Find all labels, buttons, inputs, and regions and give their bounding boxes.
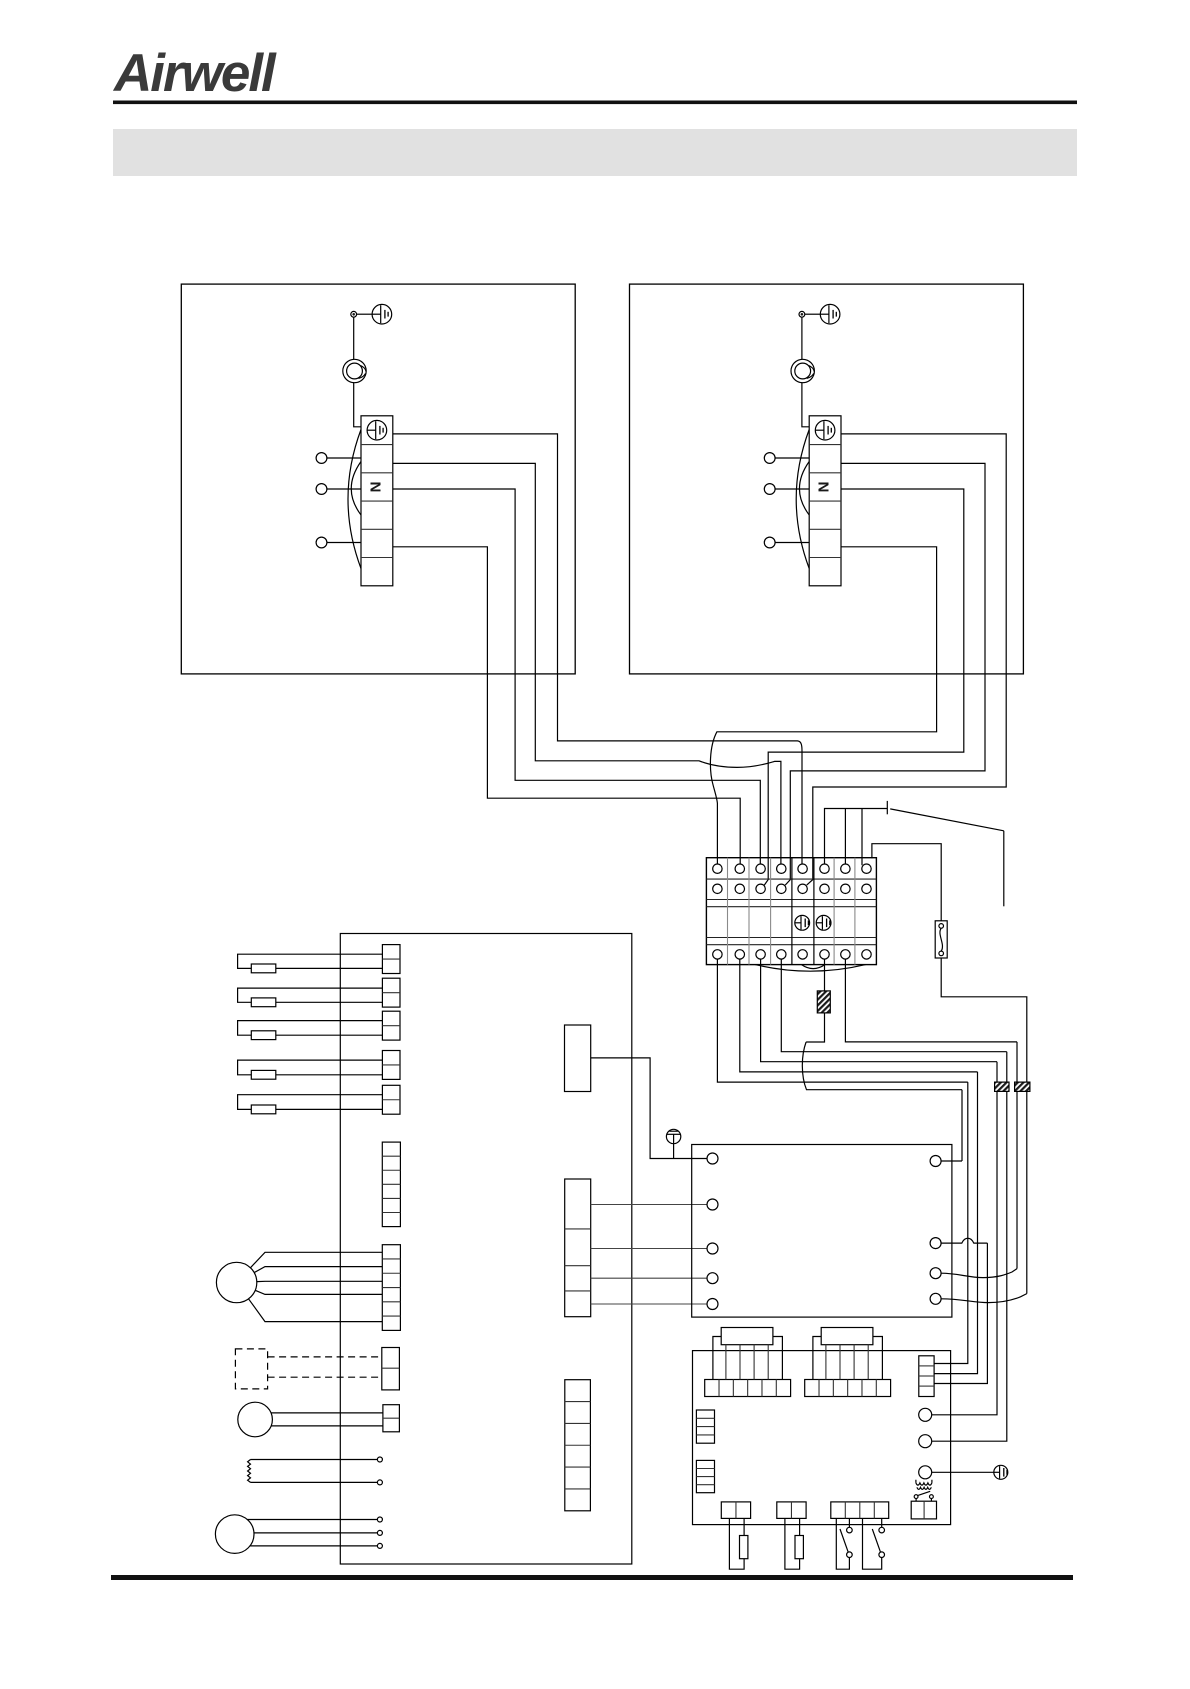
wire — [801, 317, 803, 359]
connector K4 header — [821, 1328, 873, 1345]
pin — [377, 1543, 382, 1548]
terminal block TB bottom row terminals — [713, 950, 722, 959]
fan motor FM1 — [216, 1262, 256, 1302]
wire — [276, 1001, 383, 1003]
relay K2 coil terminal — [919, 1435, 932, 1448]
wire U2 t2 to TB row2 col4 — [785, 463, 985, 885]
connector CN12 4-pin right — [919, 1356, 934, 1397]
control box pin L1 — [707, 1153, 718, 1164]
connector CN1 2-pin — [382, 945, 400, 974]
pin — [377, 1530, 382, 1535]
connector K4 pins — [825, 1345, 827, 1380]
terminal block TB column dividers — [727, 858, 729, 965]
terminal strip U2 — [809, 416, 841, 586]
PCB board outline — [340, 934, 632, 1565]
wire — [591, 1303, 707, 1305]
wire feed cols 6-8 — [825, 809, 888, 866]
earth terminal U1 strip — [367, 420, 387, 440]
control box pin R3 — [930, 1268, 941, 1279]
control box pin R4 — [930, 1293, 941, 1304]
pump motor PM1 — [238, 1402, 273, 1437]
control box pin R2 — [930, 1238, 941, 1249]
transformer T1 switch blade — [917, 1491, 930, 1495]
wire col2 to bottom box cn3 pin2 — [934, 1072, 977, 1374]
switch S2 — [836, 1518, 849, 1569]
wire dashed — [268, 1356, 382, 1358]
wire TB col7 down — [845, 959, 1017, 1042]
wire TB col4 down — [781, 959, 1007, 1052]
fan motor U2 — [791, 359, 814, 382]
wire — [276, 1074, 383, 1076]
wire K5 to earth — [932, 1471, 994, 1473]
wire — [805, 313, 821, 315]
terminal block TB outline — [706, 858, 876, 965]
pin U2 L1 — [764, 453, 775, 464]
wire — [775, 488, 809, 490]
connector CN14 4-pin left — [696, 1460, 714, 1492]
wire TB col8 to fuse F1 — [872, 844, 941, 921]
wire TB col3 down — [761, 959, 997, 1062]
wire U1 t5 to TB col2 — [393, 547, 740, 864]
cable arc U2 outer — [796, 430, 809, 569]
wire — [802, 383, 809, 427]
wire col1 to bottom box cn3 pin1 — [934, 1082, 968, 1363]
relay board outline — [693, 1351, 951, 1525]
wire — [276, 967, 383, 969]
wire — [591, 1204, 707, 1206]
header rule — [113, 101, 1077, 105]
wire — [276, 1108, 383, 1110]
compressor motor CM1 — [215, 1515, 254, 1554]
wire U1 N to TB col3 — [393, 489, 761, 864]
connector CN9 2-pin — [383, 1405, 400, 1432]
wire — [254, 1267, 382, 1273]
wire TB col2 down — [740, 959, 978, 1072]
wire — [591, 1277, 707, 1279]
transformer T1 pins — [914, 1495, 918, 1499]
control box pin L3 — [707, 1243, 718, 1254]
earth terminal TB col6 — [816, 915, 831, 930]
resistor P1R — [729, 1518, 744, 1569]
cable marker M3 — [1015, 1082, 1030, 1091]
control box pin R1 — [930, 1156, 941, 1167]
svg-text:N: N — [816, 482, 833, 493]
wire — [276, 1034, 383, 1036]
cable arc U1 outer — [348, 430, 361, 569]
connector K4 cells — [805, 1380, 891, 1397]
connector K4 outer pins — [813, 1337, 883, 1380]
pin U2 L3 — [764, 537, 775, 548]
connector CN3 2-pin — [382, 1011, 400, 1040]
earth terminal E2 — [994, 1465, 1008, 1479]
terminal block TB top row terminals — [713, 864, 722, 873]
wire — [254, 1532, 377, 1534]
wire col3 to relay K1 — [932, 1062, 997, 1415]
earth symbol E1 — [666, 1129, 680, 1158]
wire U1 t2 to TB col4 — [393, 463, 781, 864]
cable arc U2 inner — [799, 462, 809, 516]
pin U2 L2 — [764, 484, 775, 495]
connector CN4 2-pin — [382, 1051, 400, 1080]
terminal strip U1 — [361, 416, 393, 586]
wire dashed — [268, 1376, 382, 1378]
connector CN5 2-pin — [382, 1085, 400, 1114]
terminal block TB second row terminals — [713, 884, 722, 893]
wire — [257, 1280, 383, 1282]
earth terminal U1 top — [372, 304, 392, 324]
wire — [327, 542, 361, 544]
pin U1 L1 — [316, 453, 327, 464]
optional module dashed — [235, 1349, 267, 1389]
wire — [327, 457, 361, 459]
pin — [377, 1480, 382, 1485]
wire to relay pin R1 — [961, 1090, 963, 1161]
wire switch drop open end — [1003, 831, 1005, 907]
crossover arc col6 wire — [802, 1042, 962, 1090]
relay K1 coil terminal — [919, 1408, 932, 1421]
wire — [249, 1299, 383, 1322]
wire — [357, 313, 373, 315]
earth terminal TB col5 — [795, 915, 810, 930]
wire — [251, 1481, 378, 1483]
wire — [250, 1545, 377, 1547]
connector P2 — [777, 1502, 806, 1519]
wire R1 — [941, 1160, 962, 1162]
connector K3 pins — [725, 1345, 727, 1380]
switch S3 — [863, 1518, 882, 1569]
switch S1 blade — [890, 809, 1004, 831]
power module PS1 — [565, 1025, 591, 1092]
wire relay pin R2 to bottom box cn3 pin3 — [934, 1243, 987, 1383]
indoor unit U2 enclosure — [630, 284, 1024, 674]
wire — [251, 1459, 378, 1461]
indoor unit U1 enclosure — [181, 284, 575, 674]
wire R4 with hops — [941, 1294, 1027, 1303]
wire U2 N to TB row2 col3 — [764, 489, 964, 885]
fan motor U1 — [343, 359, 366, 382]
thermistor TH5 — [238, 1095, 383, 1110]
wire — [272, 1412, 383, 1414]
wire fuse F1 to relay pin R4 vertical — [941, 958, 1027, 1294]
connector K3 cells — [705, 1380, 791, 1397]
title band — [113, 129, 1077, 176]
wire — [327, 488, 361, 490]
thermistor TH4 — [238, 1060, 383, 1075]
wire col4 to relay K2 — [932, 1052, 1007, 1442]
wire — [247, 1519, 377, 1521]
connector K3 outer pins — [713, 1337, 783, 1380]
control box pin L2 — [707, 1199, 718, 1210]
pin U1 L2 — [316, 484, 327, 495]
wire — [354, 383, 361, 427]
fuse F1 body — [935, 921, 947, 958]
wire — [775, 457, 809, 459]
cable marker M1 on col6 wire — [817, 991, 830, 1013]
pin U1 L3 — [316, 537, 327, 548]
connector K3 header — [721, 1328, 773, 1345]
wire PS1 to control box pin1 — [591, 1058, 707, 1159]
earth terminal U2 top — [820, 304, 840, 324]
connector CN2 2-pin — [382, 978, 400, 1007]
node U1 supply junction — [351, 311, 357, 317]
wire — [775, 542, 809, 544]
transformer T1 body — [911, 1501, 936, 1519]
switch S1 contact tick — [886, 801, 888, 814]
earth terminal U2 strip — [815, 420, 835, 440]
wire U2 earth to TB row2 col5 — [807, 434, 1007, 885]
node U2 supply junction — [799, 311, 805, 317]
terminal block TB row lines — [706, 878, 876, 880]
wire TB col1 down — [717, 959, 967, 1082]
wire R3 with hops — [941, 1269, 1017, 1278]
resistor P2R — [785, 1518, 800, 1569]
connector CN11 6-pin — [565, 1380, 591, 1511]
footer rule — [111, 1575, 1073, 1580]
connector P1 — [721, 1502, 750, 1519]
svg-text:Airwell: Airwell — [112, 44, 277, 103]
transformer T1 coils — [916, 1483, 932, 1485]
cable arc under TB small — [802, 965, 825, 969]
control box pin L4 — [707, 1273, 718, 1284]
wire U2 t5 arc to TB col1 — [710, 547, 936, 864]
connector CN13 4-pin left — [696, 1410, 714, 1443]
connector CN10 4-pin — [565, 1179, 591, 1317]
pin — [377, 1517, 382, 1522]
relay K5 coil terminal — [919, 1466, 932, 1479]
wire R2 with hops — [941, 1238, 987, 1243]
wire — [353, 317, 355, 359]
svg-text:N: N — [367, 482, 384, 493]
thermistor TH1 — [238, 954, 383, 968]
wire — [591, 1248, 707, 1250]
wire U1 earth to TB col5 — [393, 434, 802, 864]
wire TB col6 to marker — [806, 959, 824, 1042]
connector CN6 6-pin spare — [382, 1142, 400, 1227]
control box outline — [692, 1145, 952, 1318]
cable arc U1 inner — [351, 462, 361, 516]
thermistor TH3 — [238, 1021, 383, 1036]
wire — [255, 1290, 382, 1294]
wire col7 to relay pin R3 — [1016, 1042, 1018, 1269]
cable marker M2 — [995, 1082, 1009, 1091]
thermistor TH2 — [238, 988, 383, 1002]
pin — [377, 1457, 382, 1462]
control box pin L5 — [707, 1299, 718, 1310]
heater element HE1 — [248, 1460, 251, 1483]
wire — [272, 1425, 383, 1427]
wire — [250, 1252, 382, 1268]
connector CN8 2-pin — [382, 1348, 400, 1390]
connector CN7 6-pin fan — [382, 1245, 400, 1331]
cable arc under TB — [755, 965, 865, 972]
connector P3 4-pin — [831, 1502, 889, 1519]
